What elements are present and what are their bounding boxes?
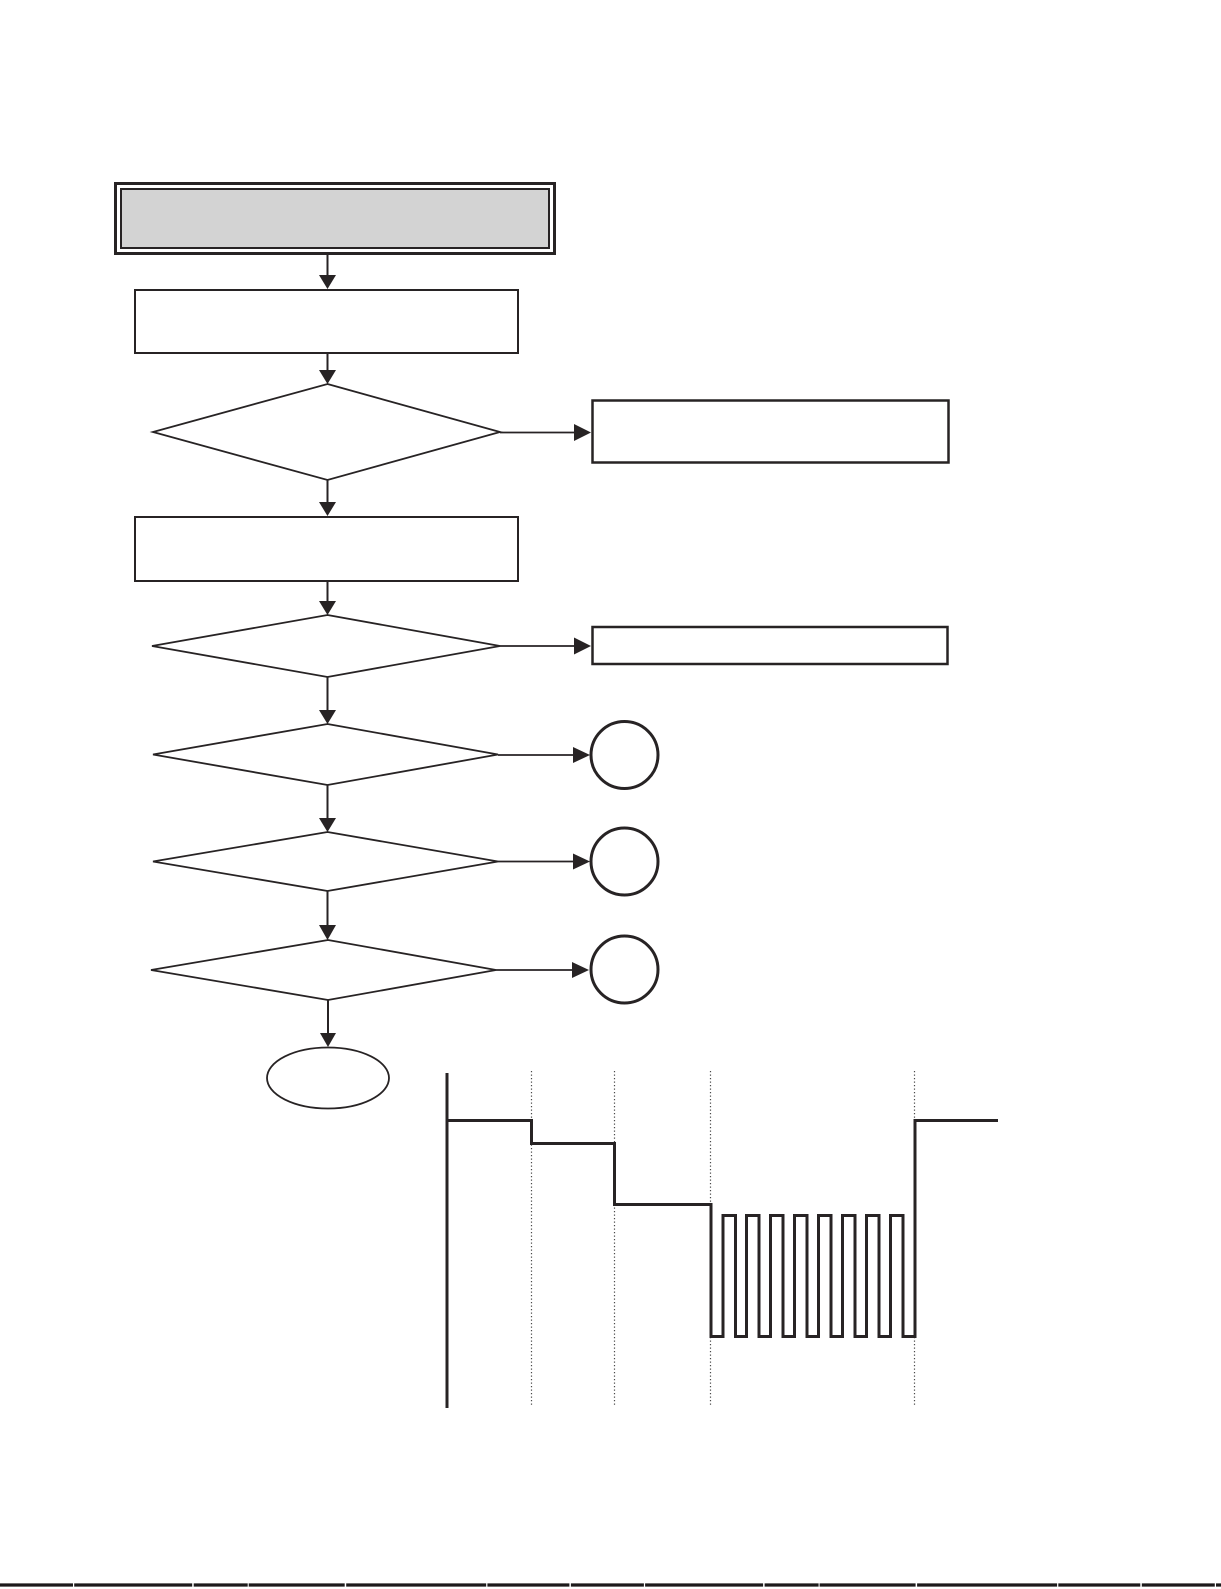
- terminator ellipse: [267, 1048, 389, 1109]
- wire arrow 4 (process B to decision 2): [319, 582, 336, 615]
- waveform axis (solid vertical): [446, 1073, 449, 1408]
- start box inner frame with grey fill: [121, 189, 549, 248]
- dotted gridline t1: [531, 1071, 533, 1407]
- process box A: [135, 290, 518, 353]
- wire arrow right 3 (decision 3 to connector circle 1): [498, 747, 590, 763]
- connector circle 2: [591, 828, 658, 895]
- wire arrow right 4 (decision 4 to connector circle 2): [498, 854, 590, 870]
- wire arrow 7 (decision 4 to decision 5): [319, 891, 336, 940]
- wire arrow 1 (start box to process A): [319, 255, 336, 289]
- start box (double-border shaded) outer frame: [116, 184, 555, 254]
- wire arrow right 1 (decision 1 to side box 1): [500, 424, 591, 441]
- connector circle 1: [591, 722, 658, 789]
- wire arrow right 5 (decision 5 to connector circle 3): [496, 962, 589, 978]
- wire arrow right 2 (decision 2 to side box 2): [500, 638, 591, 655]
- wire arrow 3 (decision 1 to process B): [319, 480, 336, 516]
- side box 1: [593, 401, 949, 463]
- wire arrow 8 (decision 5 to terminator): [320, 1000, 336, 1047]
- dotted gridline t4: [914, 1071, 916, 1407]
- decision diamond 2: [152, 615, 500, 677]
- waveform trace (stepped signal with burst): [447, 1121, 998, 1337]
- side box 2: [593, 627, 948, 664]
- wire arrow 5 (decision 2 to decision 3): [319, 677, 336, 724]
- dotted gridline t2: [614, 1071, 616, 1407]
- wire arrow 2 (process A to decision 1): [319, 354, 336, 384]
- decision diamond 5: [151, 940, 496, 1000]
- decision diamond 1: [153, 384, 500, 480]
- dotted gridline t3: [710, 1071, 712, 1407]
- decision diamond 3: [153, 724, 498, 785]
- decision diamond 4: [153, 832, 498, 891]
- connector circle 3: [591, 936, 658, 1003]
- footer scan line: [0, 1583, 1221, 1586]
- wire arrow 6 (decision 3 to decision 4): [319, 785, 336, 832]
- process box B: [135, 517, 518, 581]
